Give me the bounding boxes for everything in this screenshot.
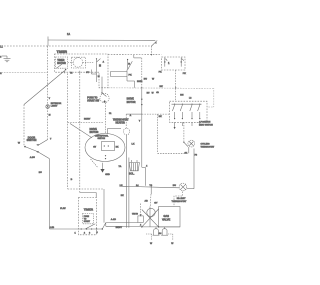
svg-text:BU: BU (173, 185, 177, 187)
wire bottom mid rail E (119, 186, 179, 188)
wire timer drop 2 (79, 73, 81, 192)
svg-text:BK: BK (159, 116, 163, 118)
wire to igniter row (106, 222, 138, 224)
svg-text:UM 50: UM 50 (132, 213, 139, 215)
svg-text:BK/GY: BK/GY (116, 227, 123, 229)
svg-text:BN: BN (180, 94, 184, 96)
svg-text:THERMOSTAT: THERMOSTAT (113, 118, 129, 121)
svg-text:HEAT SWITCH: HEAT SWITCH (199, 123, 213, 126)
svg-text:CY: CY (86, 72, 90, 74)
svg-text:PK: PK (159, 71, 162, 73)
svg-text:SOL.: SOL. (129, 173, 135, 176)
svg-text:4: 4 (96, 231, 98, 234)
wire power rail C dotted (108, 87, 214, 90)
svg-text:LIGHT: LIGHT (51, 106, 58, 108)
svg-text:M: M (98, 76, 100, 78)
gas valve box (159, 207, 180, 227)
fuse loop under buzzer (111, 70, 127, 72)
svg-text:W: W (152, 78, 155, 80)
wire from hi-limit to gas valve dashed (174, 192, 183, 207)
wire from door switch down to bottom rail (39, 152, 50, 158)
svg-text:W: W (18, 143, 21, 145)
timer TM1 dashed enclosure (top) (55, 54, 109, 88)
svg-text:A: A (130, 114, 132, 117)
svg-text:4-POSITION: 4-POSITION (199, 121, 211, 124)
svg-text:W: W (171, 243, 174, 245)
svg-text:4: 4 (140, 224, 142, 227)
coil G4 (154, 229, 159, 235)
svg-text:SWITCH: SWITCH (27, 139, 37, 142)
svg-text:A-1D: A-1D (111, 218, 117, 221)
svg-text:Y: Y (139, 121, 141, 123)
svg-text:TIMER: TIMER (84, 207, 94, 211)
svg-text:GY: GY (154, 203, 158, 205)
svg-text:W: W (150, 243, 153, 245)
svg-text:PK: PK (183, 73, 186, 75)
svg-text:W: W (152, 92, 154, 94)
svg-text:INTERIOR: INTERIOR (51, 103, 62, 105)
svg-text:START: START (84, 220, 91, 223)
wire start-winding branch dashed (68, 122, 104, 124)
svg-text:1.5B: 1.5B (50, 227, 55, 229)
svg-text:M: M (99, 64, 101, 67)
wire under gas valve (142, 226, 180, 228)
svg-text:SWITCH: SWITCH (98, 138, 106, 140)
wire leader diagonal into motor (70, 124, 92, 138)
connector plug 2 (180, 57, 182, 66)
wire big diagonal door-switch to timer (24, 71, 65, 105)
wire L1 feeder dashed down left (47, 46, 49, 140)
svg-text:GY: GY (93, 146, 97, 148)
svg-text:Y: Y (49, 98, 51, 100)
svg-text:4A: 4A (156, 91, 159, 94)
ground chassis symbol top-left (2, 56, 11, 62)
svg-text:P3: P3 (195, 155, 198, 157)
svg-text:L2: L2 (189, 97, 192, 99)
svg-text:1A: 1A (67, 33, 70, 36)
svg-text:A-BU: A-BU (30, 156, 36, 159)
svg-text:FL/W: FL/W (60, 208, 66, 210)
thermostat cycling (circle) (188, 140, 195, 147)
svg-text:BK/R: BK/R (137, 81, 143, 83)
thermostat hi-limit (179, 183, 187, 191)
wire bottom rail (49, 228, 102, 230)
wire heat feed down from terminal block (175, 70, 177, 101)
wire timer drop 1 (dashed long) (67, 73, 69, 189)
svg-text:PK: PK (129, 74, 132, 76)
svg-text:G4: G4 (159, 232, 161, 235)
flame switch (small rect) (138, 216, 143, 223)
svg-text:HEATER: HEATER (116, 121, 126, 124)
svg-text:VALVE: VALVE (162, 217, 171, 221)
svg-text:B: B (71, 179, 73, 181)
node junction dot after switch (155, 42, 156, 43)
node junction + diagonal riser (102, 228, 103, 229)
svg-text:L1: L1 (0, 46, 3, 49)
switch door (main line) blade (152, 40, 158, 46)
push-to-start switch (101, 77, 103, 93)
ground motor (91, 159, 98, 167)
svg-text:BK/GY: BK/GY (84, 119, 91, 121)
svg-text:MOTOR: MOTOR (127, 101, 136, 104)
svg-text:TIMER: TIMER (57, 50, 68, 54)
wire top vertical feeder x48 (47, 37, 49, 47)
wire neutral stub rail dotted left (3, 72, 48, 74)
connector inline on feeder (46, 105, 50, 109)
heat selector switch dashed box (170, 101, 208, 122)
wire stub from neutral rail down (151, 46, 153, 55)
wire dashed down to door switch pivot (23, 105, 25, 147)
switch radiant sensor X (147, 208, 155, 216)
wire heater branch vertical (141, 58, 143, 88)
switch timer contact right (96, 59, 98, 82)
svg-text:HI-LIMIT: HI-LIMIT (177, 198, 186, 200)
wire neutral rail dashed full width (4, 45, 152, 47)
svg-text:BU: BU (144, 78, 148, 80)
svg-text:MOTOR: MOTOR (90, 131, 99, 134)
wire mid dashed rail to terminal block (108, 53, 162, 55)
svg-text:TIMER: TIMER (57, 60, 64, 62)
svg-text:1: 1 (168, 61, 170, 65)
terminal block dashed box top right (162, 57, 186, 70)
resistor thermostat heater (dashed circle) (123, 128, 129, 134)
motor M timer (dashed circle) (72, 57, 86, 68)
svg-text:THERMOSTAT: THERMOSTAT (201, 145, 215, 148)
svg-text:LK: LK (132, 144, 135, 146)
svg-text:M: M (49, 114, 51, 116)
svg-text:AB: AB (145, 199, 149, 202)
svg-text:2: 2 (0, 57, 2, 59)
timer TM2 dashed enclosure (bottom) (78, 198, 96, 235)
timer motor label box (56, 57, 68, 68)
svg-text:A: A (103, 60, 105, 63)
svg-text:7A: 7A (119, 165, 122, 168)
svg-text:2: 2 (84, 232, 86, 234)
svg-text:3: 3 (89, 232, 91, 234)
switch buzzer contact (127, 59, 129, 70)
svg-text:BU: BU (147, 92, 150, 94)
wire step to heater feeder (133, 55, 135, 58)
wire motor to bottom rail pair (126, 135, 128, 228)
motor M drive (big ellipse) (85, 134, 125, 162)
wire lower right dashed L (157, 114, 159, 153)
svg-text:T1: T1 (70, 72, 73, 74)
wire to motor top dashed (105, 103, 107, 134)
svg-text:4: 4 (146, 165, 148, 168)
coil G2 (162, 229, 167, 235)
wire L1 rail top solid (48, 39, 155, 41)
pin T1 (65, 69, 66, 70)
svg-text:BK: BK (160, 86, 164, 88)
svg-text:1: 1 (75, 232, 77, 234)
svg-text:GND: GND (105, 174, 110, 176)
connector plug 1 (164, 57, 166, 66)
svg-text:PUSH TO: PUSH TO (87, 98, 97, 100)
svg-text:CYCLING: CYCLING (201, 143, 210, 145)
svg-text:LH: LH (120, 185, 123, 187)
switch timer cam contact (56, 63, 64, 69)
svg-text:N: N (0, 73, 2, 75)
svg-text:GAS: GAS (163, 214, 169, 218)
svg-text:BU: BU (39, 172, 42, 174)
svg-text:BK: BK (116, 146, 119, 148)
wire coil returns dashed (146, 233, 153, 235)
svg-text:T: T (50, 139, 52, 141)
svg-text:BK: BK (121, 195, 124, 197)
solenoid SOL (valve coil) (131, 160, 133, 163)
svg-text:F1: F1 (109, 113, 112, 115)
svg-text:START SW: START SW (87, 99, 100, 102)
